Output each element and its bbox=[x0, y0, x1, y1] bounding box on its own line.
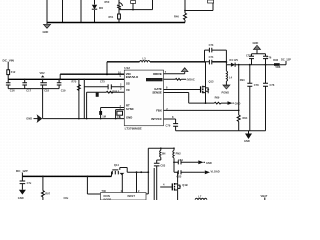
svg-text:R93: R93 bbox=[240, 78, 245, 82]
svg-text:1M: 1M bbox=[102, 115, 106, 119]
svg-text:C8x: C8x bbox=[64, 196, 69, 200]
svg-text:R69: R69 bbox=[215, 95, 220, 99]
svg-text:Q13: Q13 bbox=[209, 79, 214, 83]
svg-text:PN2: PN2 bbox=[176, 151, 182, 155]
svg-text:Q14: Q14 bbox=[114, 163, 119, 167]
svg-text:C19: C19 bbox=[61, 89, 66, 93]
svg-text:D4 12V: D4 12V bbox=[230, 58, 239, 62]
svg-text:R51: R51 bbox=[109, 15, 114, 19]
svg-text:D96: D96 bbox=[273, 58, 278, 62]
svg-text:GND: GND bbox=[18, 196, 24, 200]
svg-text:C16: C16 bbox=[10, 89, 15, 93]
svg-text:BGDR: BGDR bbox=[104, 197, 112, 200]
svg-text:LT3798MSE: LT3798MSE bbox=[125, 126, 142, 130]
svg-text:C83: C83 bbox=[160, 163, 165, 167]
svg-text:FBX: FBX bbox=[156, 108, 162, 112]
svg-text:DC_VIN: DC_VIN bbox=[3, 58, 15, 62]
svg-text:GND: GND bbox=[26, 117, 32, 121]
svg-text:VLOAD: VLOAD bbox=[211, 170, 220, 174]
svg-text:EN/UVLO: EN/UVLO bbox=[126, 75, 139, 79]
svg-text:GND: GND bbox=[244, 139, 250, 143]
svg-text:C18: C18 bbox=[44, 89, 49, 93]
svg-text:C17: C17 bbox=[26, 89, 31, 93]
svg-text:GND: GND bbox=[235, 101, 241, 105]
svg-text:GND: GND bbox=[43, 30, 49, 34]
svg-text:C7x: C7x bbox=[27, 181, 32, 185]
svg-text:(VDAC: (VDAC bbox=[187, 77, 195, 81]
svg-text:DC_12P: DC_12P bbox=[16, 169, 28, 173]
svg-text:GND: GND bbox=[206, 161, 212, 165]
svg-text:INTVCC: INTVCC bbox=[151, 117, 161, 121]
svg-text:T36: T36 bbox=[101, 189, 106, 193]
svg-text:R94: R94 bbox=[243, 116, 248, 120]
svg-text:R50: R50 bbox=[105, 0, 110, 4]
svg-text:PGOOD: PGOOD bbox=[151, 78, 161, 82]
svg-text:DRIVE: DRIVE bbox=[153, 72, 162, 76]
svg-text:GND: GND bbox=[126, 116, 132, 120]
svg-text:SS: SS bbox=[126, 82, 130, 86]
svg-text:C84: C84 bbox=[178, 158, 183, 162]
svg-text:GND: GND bbox=[253, 41, 259, 45]
svg-text:8N: 8N bbox=[162, 152, 165, 156]
svg-text:R97: R97 bbox=[45, 191, 50, 195]
svg-text:PGND: PGND bbox=[222, 91, 230, 95]
svg-text:VBAT: VBAT bbox=[261, 194, 268, 198]
svg-text:DC_12P: DC_12P bbox=[281, 57, 291, 61]
svg-text:SYNC: SYNC bbox=[126, 107, 134, 111]
svg-text:VD2: VD2 bbox=[40, 71, 46, 75]
svg-text:5R6: 5R6 bbox=[276, 65, 281, 69]
svg-text:C78: C78 bbox=[254, 83, 259, 87]
svg-text:R75: R75 bbox=[72, 79, 77, 83]
svg-text:C79: C79 bbox=[166, 124, 171, 128]
svg-text:Q1B: Q1B bbox=[182, 183, 187, 187]
svg-text:VC: VC bbox=[126, 88, 130, 92]
svg-text:D6: D6 bbox=[99, 6, 103, 10]
svg-text:INFET: INFET bbox=[128, 194, 136, 198]
svg-text:C76: C76 bbox=[267, 55, 272, 59]
svg-text:R46: R46 bbox=[174, 14, 179, 18]
svg-text:C74: C74 bbox=[209, 55, 214, 59]
svg-text:U12: U12 bbox=[124, 66, 130, 70]
svg-text:C75: C75 bbox=[100, 79, 105, 83]
svg-text:C76: C76 bbox=[270, 83, 275, 87]
svg-text:SENSE: SENSE bbox=[152, 91, 162, 95]
svg-text:C77: C77 bbox=[246, 53, 251, 57]
svg-text:F12: F12 bbox=[11, 70, 16, 74]
svg-text:R88 2: R88 2 bbox=[112, 89, 119, 93]
svg-text:C73: C73 bbox=[209, 43, 214, 47]
